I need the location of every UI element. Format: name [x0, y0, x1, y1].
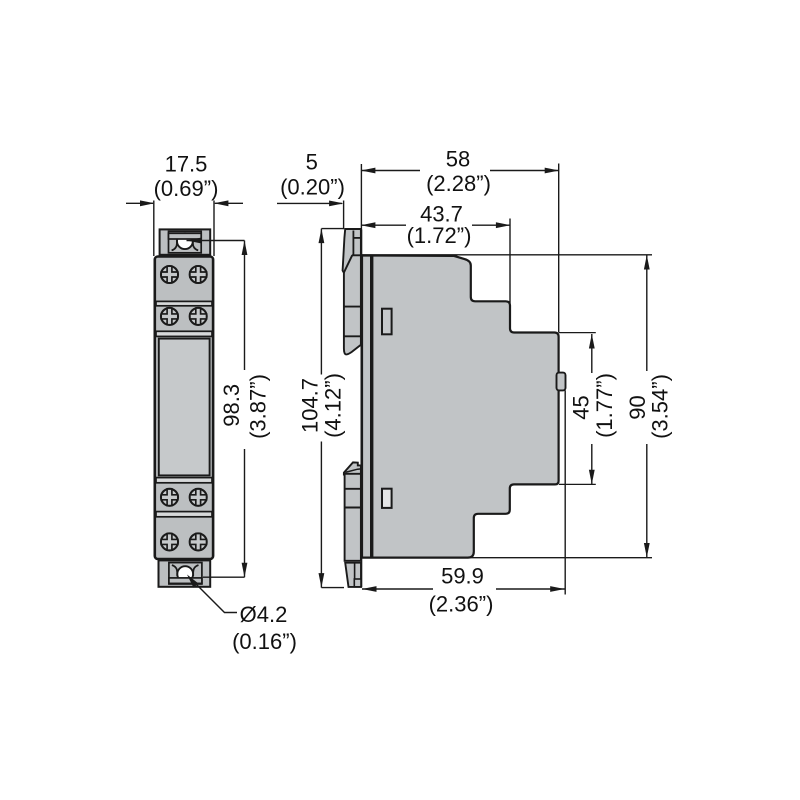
dim 98.3: [244, 241, 246, 371]
label panel: [159, 339, 210, 476]
screw A1: [161, 266, 178, 283]
screw B2: [190, 308, 207, 325]
dim 5: [277, 202, 342, 204]
leader dia 4.2: [189, 577, 237, 613]
top cap: [160, 229, 211, 254]
screw D2: [190, 533, 207, 550]
svg-text:45: 45: [569, 395, 594, 419]
svg-text:(4.12”): (4.12”): [320, 373, 345, 438]
strip above label: [156, 331, 212, 336]
bottom slot: [382, 489, 392, 508]
svg-text:(3.87”): (3.87”): [245, 374, 270, 439]
top DIN clip block lines: [344, 306, 361, 308]
bottom cap: [159, 560, 211, 586]
svg-text:(2.28”): (2.28”): [426, 171, 491, 196]
svg-text:104.7: 104.7: [298, 378, 323, 433]
bottom DIN clip foot: [345, 563, 361, 587]
dim 17.5: [126, 202, 153, 204]
top DIN clip tab internal lines: [352, 231, 354, 256]
top slot: [382, 309, 392, 335]
svg-text:(0.20”): (0.20”): [280, 174, 345, 199]
svg-text:Ø4.2: Ø4.2: [240, 602, 288, 627]
svg-text:58: 58: [446, 146, 470, 171]
bottom DIN clip wedge: [344, 462, 361, 474]
svg-text:(2.36”): (2.36”): [429, 591, 494, 616]
top DIN clip chamfer diagonal: [344, 255, 353, 273]
screw A2: [190, 266, 207, 283]
svg-text:(1.77”): (1.77”): [592, 373, 617, 438]
svg-text:17.5: 17.5: [165, 151, 208, 176]
rail plane line: [360, 229, 362, 587]
dimension texts: [154, 146, 673, 653]
line below bump: [564, 390, 566, 594]
dim 43.7: [361, 224, 406, 226]
dim 45: [591, 334, 593, 373]
rear wall thick line: [370, 257, 373, 557]
svg-text:(3.54”): (3.54”): [648, 374, 673, 439]
dim 59.9: [362, 588, 433, 590]
screw C1: [161, 489, 178, 506]
dim 104.7: [320, 229, 322, 375]
svg-text:(0.69”): (0.69”): [154, 176, 219, 201]
svg-text:5: 5: [306, 149, 318, 174]
screw B1: [161, 308, 178, 325]
screw D1: [161, 533, 178, 550]
separator band 2: [156, 512, 212, 517]
svg-text:90: 90: [625, 395, 650, 419]
svg-text:59.9: 59.9: [441, 563, 484, 588]
dim 90: [646, 255, 648, 371]
bottom DIN clip block: [345, 474, 361, 561]
dim 58: [361, 170, 420, 172]
strip below label: [156, 478, 212, 483]
screw C2: [190, 489, 207, 506]
top DIN clip silhouette: [343, 229, 361, 354]
separator band 1: [156, 301, 212, 305]
svg-text:(0.16”): (0.16”): [232, 629, 297, 654]
arrowheads: [140, 168, 650, 592]
front bump: [557, 373, 566, 391]
svg-text:(1.72”): (1.72”): [407, 223, 472, 248]
svg-text:98.3: 98.3: [219, 384, 244, 427]
side body outline: [362, 256, 559, 558]
front body: [155, 257, 213, 560]
